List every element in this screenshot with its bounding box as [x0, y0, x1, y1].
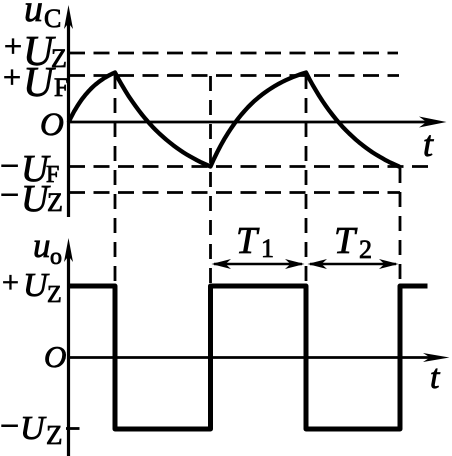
dashed level +U_Z (top)	[69, 52, 398, 55]
svg-text:t: t	[430, 359, 441, 396]
svg-text:1: 1	[261, 234, 274, 263]
svg-text:O: O	[40, 107, 64, 143]
dashed level -U_F (top)	[69, 165, 435, 168]
svg-text:Z: Z	[51, 44, 67, 73]
svg-text:o: o	[50, 244, 62, 270]
dashed vertical at t3 (x=306, second peak)	[305, 74, 308, 286]
arrow T1 (double headed, t1..t3 span lower)	[212, 259, 305, 269]
square wave u_o output	[69, 286, 428, 429]
svg-text:Z: Z	[46, 420, 63, 450]
svg-text:U: U	[23, 60, 56, 106]
svg-text:T: T	[236, 220, 260, 262]
svg-text:−: −	[0, 408, 19, 445]
svg-text:Z: Z	[47, 282, 62, 308]
dashed level -U_Z (top)	[69, 191, 400, 194]
svg-text:T: T	[334, 220, 358, 262]
dashed vertical at t1 (x=115, first peak)	[114, 74, 117, 286]
svg-text:O: O	[44, 339, 66, 374]
svg-text:2: 2	[359, 235, 372, 264]
axis t horizontal (top graph)	[69, 117, 447, 128]
svg-text:u: u	[33, 226, 51, 265]
svg-text:+: +	[2, 266, 19, 299]
axis t horizontal (bottom graph)	[69, 353, 450, 362]
svg-text:F: F	[54, 73, 68, 102]
dashed vertical at t4 (x=400, second trough)	[399, 168, 402, 286]
svg-text:t: t	[423, 124, 434, 164]
svg-text:−: −	[0, 177, 19, 214]
dashed level +U_F (top)	[69, 74, 399, 77]
axis u_o vertical (bottom graph)	[64, 238, 73, 456]
svg-text:U: U	[20, 410, 47, 447]
curve u_C waveform (exponential charge/discharge)	[69, 73, 399, 167]
svg-text:Z: Z	[47, 188, 63, 217]
axis u_C vertical (top graph)	[64, 5, 73, 217]
tick -U_Z (bottom axis)	[66, 427, 80, 430]
svg-text:U: U	[23, 267, 50, 304]
arrow T2	[308, 259, 399, 269]
dashed vertical at t2 (x=210.5, first trough)	[209, 76, 212, 286]
svg-text:u: u	[24, 0, 43, 30]
svg-text:+: +	[3, 59, 21, 95]
